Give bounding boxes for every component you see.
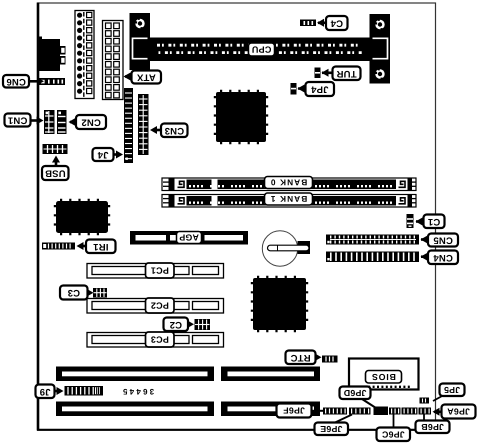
- svg-text:BIOS: BIOS: [371, 372, 396, 382]
- DIMM socket BANK 1: [162, 195, 416, 208]
- svg-text:CN6: CN6: [6, 76, 26, 87]
- label IR1: [86, 240, 116, 254]
- svg-text:JP4: JP4: [310, 84, 328, 95]
- label JP6C: [377, 428, 411, 442]
- jumper block solid (JP6D target): [374, 407, 389, 416]
- svg-text:JP5: JP5: [444, 385, 460, 395]
- jumper JP5: [420, 398, 430, 404]
- svg-text:C3: C3: [67, 287, 80, 298]
- leader arrow for ATX: [124, 73, 137, 81]
- jumper JP6F pins: [323, 408, 347, 415]
- label JP4: [306, 82, 335, 96]
- leader line for JP6F: [310, 410, 323, 412]
- svg-text:TUR: TUR: [336, 68, 356, 79]
- svg-text:CN1: CN1: [7, 115, 27, 126]
- label C1: [424, 215, 445, 229]
- capacitor C2: [195, 319, 211, 330]
- connector USB header: [43, 144, 68, 154]
- ISA slot ISA1: [56, 367, 320, 382]
- svg-text:C2: C2: [169, 319, 182, 330]
- connector IR1: [42, 243, 75, 250]
- CPU slot body: [150, 38, 370, 62]
- svg-text:J9: J9: [40, 386, 51, 397]
- jumper JP6C pins: [389, 408, 401, 415]
- svg-text:CPU: CPU: [252, 45, 272, 55]
- label C3: [60, 286, 88, 300]
- svg-text:IR1: IR1: [93, 241, 109, 252]
- label J9: [36, 385, 55, 399]
- label JP5: [440, 384, 465, 397]
- svg-text:JP6D: JP6D: [344, 388, 367, 398]
- leader arrow for RTC: [313, 353, 322, 361]
- svg-text:AGP: AGP: [179, 233, 199, 243]
- leader arrow for C2: [187, 320, 194, 328]
- label JP6E: [315, 423, 349, 436]
- label BIOS: [366, 371, 402, 384]
- svg-text:C4: C4: [330, 18, 343, 29]
- svg-text:JP6C: JP6C: [381, 429, 404, 439]
- svg-text:BANK 1: BANK 1: [270, 194, 308, 204]
- label CN5: [428, 234, 458, 247]
- connector CN2: [57, 110, 67, 134]
- IC chip U3 (south bridge): [252, 277, 307, 331]
- connector ATX power: [103, 21, 124, 100]
- label BANK 0: [265, 177, 313, 189]
- svg-text:JP6B: JP6B: [421, 422, 444, 432]
- leader line for JP6E: [334, 415, 352, 424]
- label JP6D: [340, 387, 371, 400]
- PCI slot PC2: [87, 299, 224, 314]
- leader arrow for USB: [52, 156, 60, 169]
- svg-text:CN4: CN4: [433, 252, 453, 263]
- svg-text:BANK 0: BANK 0: [270, 178, 308, 188]
- leader arrow for C3: [85, 289, 94, 297]
- BIOS socket: [349, 359, 419, 390]
- CPU slot-1 left retention latch: [130, 13, 151, 70]
- label BANK 1: [265, 193, 313, 205]
- leader arrow for IR1: [77, 242, 90, 250]
- leader arrow for C1: [416, 218, 426, 226]
- svg-text:JP6A: JP6A: [447, 407, 470, 417]
- svg-text:PC2: PC2: [151, 301, 169, 311]
- connector J4: [124, 88, 133, 163]
- label CN1: [5, 114, 31, 127]
- label PC3: [146, 332, 175, 347]
- label CN3: [161, 124, 188, 138]
- svg-text:JP6F: JP6F: [283, 406, 305, 416]
- PS/2 keyboard/mouse connector (CN6 stack): [37, 37, 66, 72]
- label JP6B: [416, 421, 450, 434]
- ISA slot ISA2: [56, 402, 320, 417]
- silkscreen text 36445: [121, 387, 154, 396]
- leader arrow for JP4: [298, 85, 309, 93]
- jumper TUR: [315, 68, 321, 79]
- DIMM socket BANK 0: [162, 178, 416, 191]
- label CN2: [76, 115, 106, 129]
- PCI slot PC1: [87, 264, 224, 279]
- leader arrow for CN4: [421, 253, 430, 261]
- svg-text:CN2: CN2: [81, 117, 101, 128]
- svg-text:JP6E: JP6E: [320, 424, 342, 434]
- svg-text:CN5: CN5: [433, 235, 453, 246]
- motherboard outline: [37, 3, 436, 431]
- svg-text:PC1: PC1: [151, 266, 169, 276]
- connector J9: [65, 386, 104, 396]
- connector CN3: [138, 94, 149, 155]
- leader arrow for CN3: [150, 126, 163, 134]
- label PC2: [146, 298, 175, 313]
- jumper JP6E pins: [349, 408, 371, 415]
- svg-text:USB: USB: [45, 168, 66, 179]
- label C4: [326, 16, 348, 30]
- svg-text:ATX: ATX: [136, 72, 155, 83]
- RTC oscillator component: [322, 356, 338, 363]
- svg-text:PC3: PC3: [151, 335, 169, 345]
- label CPU: [249, 43, 275, 56]
- svg-text:RTC: RTC: [290, 352, 310, 363]
- leader arrow for CN5: [421, 236, 430, 244]
- label CN6: [3, 75, 29, 88]
- AT power connector: [75, 11, 94, 99]
- connector CN6 header: [38, 78, 65, 85]
- leader arrow for J4: [112, 151, 123, 159]
- leader arrow for CN2: [69, 118, 80, 126]
- leader arrow for CN1: [28, 117, 44, 125]
- leader line for JP6B: [423, 415, 425, 422]
- label AGP: [177, 232, 202, 244]
- label PC1: [146, 263, 175, 278]
- leader arrow for TUR: [322, 69, 335, 77]
- label JP6F: [277, 404, 312, 418]
- label J4: [93, 148, 114, 161]
- svg-text:J4: J4: [97, 149, 108, 160]
- svg-text:C1: C1: [427, 216, 440, 227]
- PCI slot PC3: [87, 333, 224, 348]
- label USB: [42, 166, 69, 180]
- leader line for JP6C: [393, 415, 395, 429]
- label TUR: [333, 67, 361, 81]
- leader arrow for J9: [52, 387, 64, 395]
- svg-text:36445: 36445: [121, 387, 154, 396]
- IC chip U2 (super I/O): [55, 200, 109, 234]
- jumper JP6B pins: [402, 408, 418, 415]
- jumper JP6A pins: [419, 408, 432, 415]
- IC chip U1 (north bridge): [215, 91, 267, 143]
- capacitor C1: [407, 214, 414, 228]
- label JP6A: [442, 405, 476, 419]
- leader arrow for CN6: [26, 77, 44, 85]
- AGP slot: [130, 231, 248, 245]
- battery BT1: [262, 231, 310, 266]
- jumper JP4: [291, 83, 297, 95]
- label ATX: [132, 71, 162, 84]
- connector CN5: [326, 235, 419, 245]
- leader arrow for JP6A: [433, 408, 443, 416]
- leader line for JP5: [433, 396, 443, 402]
- connector CN1: [44, 110, 55, 134]
- capacitor C4: [300, 20, 316, 27]
- CPU slot-1 right retention latch: [370, 14, 391, 84]
- svg-text:CN3: CN3: [164, 125, 184, 136]
- capacitor C3: [93, 288, 107, 298]
- label RTC: [286, 351, 316, 365]
- label C2: [164, 318, 189, 332]
- label CN4: [428, 251, 458, 265]
- connector CN4: [326, 252, 419, 263]
- leader arrow for C4: [317, 19, 328, 27]
- leader line for JP6D: [362, 399, 376, 408]
